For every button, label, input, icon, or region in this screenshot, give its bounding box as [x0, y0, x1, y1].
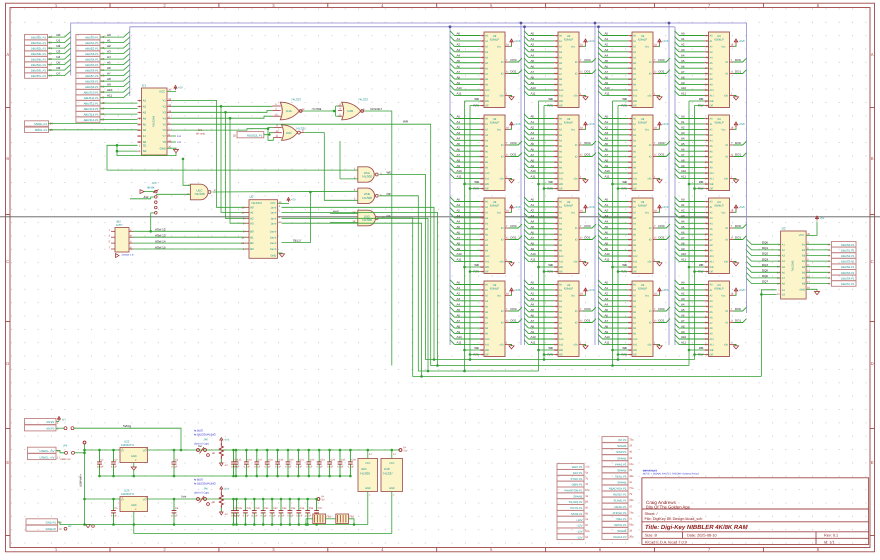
svg-text:74LS245: 74LS245 — [791, 260, 794, 271]
U2 GND — [806, 289, 817, 291]
svg-text:DBUS2.P1: DBUS2.P1 — [841, 254, 855, 258]
svg-text:Size: B: Size: B — [645, 534, 657, 538]
svg-text:DBUS7.P1: DBUS7.P1 — [841, 282, 855, 286]
svg-text:C15: C15 — [237, 458, 242, 461]
svg-text:DBUS5L.P1: DBUS5L.P1 — [31, 63, 47, 67]
svg-text:GND: GND — [365, 487, 371, 490]
svg-text:A7: A7 — [143, 134, 147, 138]
svg-text:VCC: VCC — [159, 90, 165, 94]
svg-text:+5V: +5V — [819, 217, 824, 220]
svg-text:U24: U24 — [361, 467, 367, 471]
svg-text:DBUS2L.P1: DBUS2L.P1 — [31, 47, 47, 51]
svg-text:1A: 1A — [828, 277, 831, 280]
svg-text:Da×b: Da×b — [270, 230, 277, 233]
svg-text:A4: A4 — [107, 55, 111, 59]
svg-text:OE: OE — [387, 192, 391, 196]
svg-text:U4B: U4B — [347, 109, 353, 113]
wire U1 row3 to U4A in2 — [171, 110, 273, 112]
svg-text:FB1: FB1 — [327, 516, 332, 519]
regulator U22 LM340 — [120, 448, 148, 463]
svg-text:0.1uF: 0.1uF — [287, 514, 294, 517]
svg-text:DQ1: DQ1 — [762, 246, 768, 250]
svg-text:0.1uF: 0.1uF — [270, 514, 277, 517]
svg-text:0.1uF: 0.1uF — [243, 514, 250, 517]
decoupling capacitor row 1 — [233, 450, 242, 476]
svg-text:WE: WE — [387, 171, 392, 175]
capacitor C2 — [111, 450, 118, 476]
svg-text:⇆ DECOUPLING: ⇆ DECOUPLING — [194, 432, 216, 436]
svg-text:0.1uF: 0.1uF — [265, 466, 272, 469]
svg-text:RAS: RAS — [333, 209, 339, 213]
svg-text:Sheet: /: Sheet: / — [645, 512, 659, 516]
unused gates U40 74LS27 — [381, 459, 403, 492]
svg-text:D4: D4 — [57, 55, 61, 59]
svg-text:0.1uF: 0.1uF — [317, 466, 324, 469]
svg-text:C23: C23 — [320, 458, 325, 461]
svg-text:+5Vb: +5Vb — [224, 439, 230, 442]
svg-text:1a×b: 1a×b — [270, 212, 276, 215]
svg-text:0.1uF: 0.1uF — [275, 466, 282, 469]
svg-text:A: A — [871, 52, 874, 57]
svg-text:4K/8K: 4K/8K — [147, 186, 155, 190]
svg-text:ABUS4.P1: ABUS4.P1 — [85, 58, 99, 62]
svg-text:ABUS15.P1: ABUS15.P1 — [84, 118, 99, 122]
svg-text:DBUS4.P1: DBUS4.P1 — [841, 265, 855, 269]
svg-text:0.1uF: 0.1uF — [296, 466, 303, 469]
svg-text:C34: C34 — [291, 507, 296, 510]
wire U1 row4 to U4A in3 — [171, 116, 273, 118]
wire USBPWR vertical — [84, 444, 86, 525]
U2 pin DQ5 bus entry — [747, 267, 781, 272]
svg-text:ABUS12.P1: ABUS12.P1 — [84, 102, 99, 106]
U2 pin DQ7 bus entry — [747, 278, 781, 283]
svg-text:SPARE: SPARE — [573, 494, 582, 498]
svg-text:D2: D2 — [57, 44, 61, 48]
svg-text:C37: C37 — [318, 507, 323, 510]
wire SEL17 — [282, 192, 311, 243]
labels USBCL +5V — [28, 447, 57, 453]
svg-text:74LS00: 74LS00 — [360, 472, 371, 476]
svg-text:Da×b: Da×b — [270, 248, 277, 251]
svg-text:A11: A11 — [107, 94, 112, 98]
svg-text:Y3: Y3 — [162, 110, 166, 114]
wire U5C input from top — [183, 159, 190, 185]
svg-text:C25: C25 — [341, 458, 346, 461]
svg-text:ABUS0.P1: ABUS0.P1 — [85, 36, 99, 40]
wire to U22 input — [85, 449, 121, 451]
svg-text:B2: B2 — [250, 241, 254, 245]
svg-text:ASel 14: ASel 14 — [155, 239, 166, 243]
jumper JP4 — [65, 451, 68, 454]
label DBUS1.P1 — [806, 249, 830, 251]
svg-text:A3: A3 — [107, 50, 111, 54]
svg-text:C16: C16 — [247, 458, 252, 461]
svg-text:A14: A14 — [177, 135, 182, 138]
svg-text:MWRL.P1: MWRL.P1 — [34, 122, 47, 126]
RAM chip U16 6264 col1 row3 — [450, 197, 522, 274]
svg-text:+8V.P1: +8V.P1 — [46, 420, 55, 424]
svg-text:+5V: +5V — [403, 450, 408, 453]
wire U5B out MOE — [379, 196, 538, 371]
svg-text:SPARE: SPARE — [617, 456, 626, 460]
U2 pin DQ0 bus entry — [747, 239, 781, 244]
svg-text:MRDL.P1: MRDL.P1 — [35, 128, 48, 132]
svg-text:DBUS3.P1: DBUS3.P1 — [841, 260, 855, 264]
svg-text:DBUS1L.P1: DBUS1L.P1 — [31, 41, 47, 45]
labels RWSEL — [25, 121, 49, 126]
svg-text:Y5: Y5 — [162, 122, 166, 126]
data bus column risers — [520, 23, 522, 345]
svg-text:U40: U40 — [384, 467, 390, 471]
svg-text:SPARE: SPARE — [617, 444, 626, 448]
svg-text:0.1uF: 0.1uF — [171, 466, 178, 469]
svg-text:ABUS11.P1: ABUS11.P1 — [84, 96, 99, 100]
svg-text:A1: A1 — [143, 99, 147, 103]
svg-text:D6: D6 — [57, 66, 61, 70]
svg-text:A9: A9 — [107, 83, 111, 87]
svg-text:A5: A5 — [143, 122, 147, 126]
svg-text:DBUS4L.P1: DBUS4L.P1 — [31, 58, 47, 62]
RAM chip U19 6264 col4 row3 — [675, 197, 747, 274]
wire U4A out — [303, 110, 335, 112]
svg-text:ISEL.P1: ISEL.P1 — [616, 517, 627, 521]
svg-text:C30: C30 — [255, 507, 260, 510]
RAM chip U23 6264 col4 row4 — [675, 280, 747, 357]
svg-text:A: A — [6, 52, 9, 57]
title block — [642, 478, 869, 545]
svg-text:⇆ DECOUPLING: ⇆ DECOUPLING — [194, 481, 216, 485]
wire A12 to JP3 — [130, 197, 154, 199]
wire U5C out select — [213, 190, 358, 193]
svg-text:READ.P1: READ.P1 — [615, 505, 627, 509]
svg-text:Da×b: Da×b — [270, 242, 277, 245]
svg-text:C20: C20 — [289, 458, 294, 461]
svg-text:1a×b: 1a×b — [270, 222, 276, 225]
svg-text:JP4: JP4 — [63, 445, 68, 448]
RAM chip U17 6264 col2 row3 — [524, 197, 596, 274]
svg-text:D1: D1 — [57, 39, 61, 43]
svg-text:C18: C18 — [268, 458, 273, 461]
svg-text:DBIN.P1: DBIN.P1 — [572, 483, 583, 487]
RAM chip U11 6264 col4 row1 — [675, 31, 747, 108]
IC U2 74LS245 data buffer — [781, 231, 807, 299]
svg-text:C: C — [871, 259, 874, 264]
svg-text:C35: C35 — [300, 507, 305, 510]
svg-text:-1V: -1V — [224, 513, 228, 516]
svg-text:-5V: -5V — [321, 499, 325, 502]
svg-text:SENL.P1: SENL.P1 — [615, 475, 627, 479]
svg-text:C33: C33 — [282, 507, 287, 510]
svg-text:1A: 1A — [828, 249, 831, 252]
svg-text:CDATA.P2: CDATA.P2 — [613, 535, 627, 539]
svg-text:74LS27: 74LS27 — [383, 472, 394, 476]
U2 pin DQ2 bus entry — [747, 250, 781, 255]
svg-text:USB1+5V: USB1+5V — [60, 458, 71, 461]
svg-text:A?0?: A?0? — [116, 223, 123, 227]
capacitor C5 — [111, 499, 118, 525]
RAM chip U20 6264 col1 row4 — [450, 280, 522, 357]
svg-text:C21: C21 — [299, 458, 304, 461]
svg-text:1A: 1A — [828, 283, 831, 286]
svg-text:DQ5: DQ5 — [762, 269, 768, 273]
svg-text:0.1uF: 0.1uF — [254, 466, 261, 469]
address bus column drops — [449, 27, 451, 345]
svg-text:C: C — [6, 259, 9, 264]
capacitor C6 — [171, 499, 178, 525]
wire U5D in2 — [330, 222, 358, 224]
connector P1 address labels ABUS0-15 — [76, 34, 100, 39]
RAM chip U22 6264 col3 row4 — [598, 280, 670, 357]
svg-text:74LS00: 74LS00 — [362, 175, 373, 179]
svg-text:G2: G2 — [782, 293, 786, 296]
svg-text:-1V: -1V — [224, 464, 228, 467]
svg-text:W1: W1 — [62, 419, 66, 422]
svg-text:RDY.P1: RDY.P1 — [573, 471, 583, 475]
svg-text:5Vr: 5Vr — [198, 445, 202, 448]
svg-text:DBUS5.P1: DBUS5.P1 — [841, 271, 855, 275]
power input labels +8V — [25, 419, 57, 425]
svg-text:GND: GND — [131, 455, 137, 458]
RAM chip U15 6264 col4 row2 — [675, 114, 747, 191]
labels GND bottom — [26, 519, 58, 525]
svg-text:1A: 1A — [828, 243, 831, 246]
svg-text:4K-only: 4K-only — [196, 132, 205, 135]
svg-text:74LS27: 74LS27 — [291, 98, 302, 102]
svg-text:0.1uF: 0.1uF — [337, 466, 344, 469]
svg-text:SWOL.P1: SWOL.P1 — [614, 523, 627, 527]
solder jumper JP5 — [197, 449, 200, 452]
svg-text:ASel 13: ASel 13 — [155, 234, 166, 238]
svg-text:+8V.P2: +8V.P2 — [46, 427, 55, 431]
svg-text:WAIT.P1: WAIT.P1 — [572, 465, 583, 469]
svg-text:0.1uF: 0.1uF — [305, 514, 312, 517]
svg-text:A2: A2 — [250, 216, 254, 220]
svg-text:DBUS7L.P1: DBUS7L.P1 — [31, 74, 47, 78]
svg-text:Y8: Y8 — [162, 140, 166, 144]
gate U4A 74LS27 — [280, 102, 299, 120]
svg-text:G1: G1 — [143, 143, 147, 147]
ferrite bead FB1 — [313, 514, 326, 524]
svg-text:<0.7099: <0.7099 — [312, 108, 322, 111]
svg-text:5Vreg: 5Vreg — [123, 424, 131, 428]
label DBUS3.P1 — [806, 260, 830, 262]
svg-text:A4: A4 — [143, 116, 147, 120]
svg-text:B: B — [6, 156, 9, 161]
svg-text:PHANTOM.P1: PHANTOM.P1 — [564, 489, 583, 493]
svg-text:SPARE: SPARE — [617, 529, 626, 533]
svg-text:+5Vb: +5Vb — [224, 488, 230, 491]
svg-text:0.1uF: 0.1uF — [244, 466, 251, 469]
gate U5A 74LS00 — [358, 167, 374, 182]
column 2 WE/OE chain verticals — [538, 101, 540, 371]
svg-text:PHA2.P1: PHA2.P1 — [615, 462, 627, 466]
svg-text:A5: A5 — [107, 61, 111, 65]
svg-text:Y1: Y1 — [162, 99, 166, 103]
svg-text:Jumper x 8: Jumper x 8 — [122, 254, 134, 257]
svg-text:JP5: JP5 — [204, 438, 209, 441]
svg-text:LM340T-5: LM340T-5 — [121, 492, 134, 496]
U22 ground — [133, 463, 135, 468]
svg-text:C19: C19 — [279, 458, 284, 461]
svg-text:1A: 1A — [828, 260, 831, 263]
svg-text:3K: 3K — [212, 501, 215, 504]
RAM chip U14 6264 col3 row2 — [598, 114, 670, 191]
svg-text:A6: A6 — [143, 128, 147, 132]
svg-text:USBCL.+5V: USBCL.+5V — [39, 449, 54, 453]
svg-text:SLAVE.P1: SLAVE.P1 — [613, 499, 626, 503]
svg-text:SPARE: SPARE — [617, 468, 626, 472]
svg-text:Y7: Y7 — [162, 134, 166, 138]
svg-text:VCC: VCC — [389, 462, 394, 465]
svg-text:DQ3: DQ3 — [762, 257, 768, 261]
svg-text:A7: A7 — [107, 72, 111, 76]
svg-text:GND: GND — [271, 254, 277, 257]
svg-text:USBPWR+: USBPWR+ — [80, 474, 83, 487]
wire MWR long run — [171, 124, 689, 365]
svg-text:0.1uF: 0.1uF — [296, 514, 303, 517]
svg-text:12a: 12a — [585, 466, 590, 469]
svg-text:C17: C17 — [258, 458, 263, 461]
bottom rail row2b — [134, 533, 392, 535]
svg-text:A0: A0 — [250, 205, 254, 209]
solder jumper JP6 — [197, 498, 200, 501]
bottom rail row2 — [85, 524, 368, 526]
svg-text:Da×b: Da×b — [270, 236, 277, 239]
svg-text:0.1uF: 0.1uF — [285, 466, 292, 469]
svg-text:A2: A2 — [143, 104, 147, 108]
wire U4B out to RAMCS — [365, 111, 392, 366]
gate U5D 74LS00 — [358, 210, 376, 226]
decoupling capacitor row 2 — [234, 499, 243, 525]
svg-text:ABUS7.P1: ABUS7.P1 — [85, 74, 99, 78]
svg-text:U4A: U4A — [286, 109, 292, 113]
svg-text:A8: A8 — [107, 77, 111, 81]
svg-text:+5V: +5V — [291, 199, 296, 202]
connector P1 data labels DBUS0-7 — [25, 34, 48, 39]
U23 ground — [133, 512, 135, 525]
svg-text:C26: C26 — [351, 458, 356, 461]
svg-text:GND: GND — [160, 146, 166, 150]
svg-text:+5V: +5V — [178, 87, 183, 90]
svg-text:-12V: -12V — [577, 524, 583, 528]
svg-text:35a: 35a — [629, 536, 634, 539]
svg-text:D: D — [6, 361, 9, 366]
svg-text:D0: D0 — [57, 33, 61, 37]
svg-text:-12V: -12V — [577, 535, 583, 539]
svg-text:ABUS8.P1: ABUS8.P1 — [85, 80, 99, 84]
svg-text:DBUS3L.P1: DBUS3L.P1 — [31, 52, 47, 56]
svg-text:Y2: Y2 — [162, 104, 166, 108]
svg-text:SEL17: SEL17 — [293, 239, 302, 243]
svg-text:ABUS3.P1: ABUS3.P1 — [85, 52, 99, 56]
svg-text:B: B — [871, 156, 874, 161]
svg-text:ABUS9.P1: ABUS9.P1 — [85, 85, 99, 89]
wire row2 input — [85, 498, 121, 500]
svg-text:25: 25 — [233, 134, 237, 138]
svg-text:Rev: 0.1: Rev: 0.1 — [824, 534, 838, 538]
svg-text:U7: U7 — [250, 195, 254, 199]
svg-text:74LS00: 74LS00 — [194, 192, 205, 196]
svg-text:A1: A1 — [107, 39, 111, 43]
wire U2 enables to bottom run — [761, 290, 776, 295]
svg-text:DCS3217: DCS3217 — [371, 108, 383, 111]
svg-text:DBUS1.P1: DBUS1.P1 — [841, 248, 855, 252]
svg-text:Y6: Y6 — [162, 128, 166, 132]
svg-text:+12V: +12V — [576, 518, 583, 522]
svg-text:D5: D5 — [57, 61, 61, 65]
RAM chip U21 6264 col2 row4 — [524, 280, 596, 357]
svg-text:PHOLD.P1: PHOLD.P1 — [613, 511, 627, 515]
svg-text:DBUS6L.P1: DBUS6L.P1 — [31, 69, 47, 73]
gate U5B 74LS00 — [358, 188, 375, 204]
svg-text:0.1uF: 0.1uF — [111, 514, 118, 517]
IC U1 74LS244 buffer — [142, 88, 168, 155]
svg-text:KiCad E.D.A. kicad 7.0.9: KiCad E.D.A. kicad 7.0.9 — [645, 540, 687, 544]
svg-text:G2: G2 — [143, 149, 147, 153]
svg-text:GND: GND — [389, 487, 395, 490]
spare label column B — [602, 437, 628, 443]
wire U23 out rail2 — [148, 498, 318, 500]
svg-text:USBCL.+5V: USBCL.+5V — [39, 455, 54, 459]
svg-text:U4C: U4C — [286, 131, 293, 135]
svg-text:0.1uF: 0.1uF — [261, 514, 268, 517]
svg-text:A1: A1 — [250, 211, 254, 215]
svg-text:SIXTN.P1: SIXTN.P1 — [570, 506, 583, 510]
wire USB power junction — [56, 450, 65, 452]
RAM chip U10 6264 col3 row1 — [598, 31, 670, 108]
wire 5Vreg — [56, 421, 59, 423]
svg-text:DBUS6.P1: DBUS6.P1 — [841, 276, 855, 280]
svg-text:A6: A6 — [107, 66, 111, 70]
svg-text:DQ2: DQ2 — [762, 252, 768, 256]
svg-text:0.1uF: 0.1uF — [234, 514, 241, 517]
label DBUS7.P1 — [806, 283, 830, 285]
svg-text:3K: 3K — [212, 452, 215, 455]
U1 short stubs rows 7-8 — [171, 135, 176, 137]
column 3 WE/OE chain verticals — [612, 101, 614, 366]
wire JP3 bottom to ASel12 — [150, 213, 152, 231]
svg-text:DQ4: DQ4 — [762, 263, 768, 267]
capacitor C7 100uF — [231, 499, 238, 525]
svg-text:WR: WR — [403, 119, 409, 123]
wire U5A out MWE — [379, 175, 694, 360]
svg-text:1A: 1A — [828, 255, 831, 258]
wire U5D out CS — [379, 218, 761, 376]
svg-text:B1: B1 — [250, 235, 254, 239]
svg-text:C31: C31 — [264, 507, 269, 510]
svg-text:74LS244: 74LS244 — [151, 116, 155, 128]
svg-text:5Vrk: 5Vrk — [181, 495, 187, 498]
svg-text:C36: C36 — [309, 507, 314, 510]
svg-text:(Set 0.0 Cap): (Set 0.0 Cap) — [194, 491, 209, 494]
svg-text:74LS27: 74LS27 — [296, 126, 307, 130]
svg-text:0.1uF: 0.1uF — [348, 466, 355, 469]
svg-text:67a: 67a — [585, 489, 590, 492]
svg-text:RESET.P1: RESET.P1 — [613, 493, 627, 497]
svg-text:ABUS14.P1: ABUS14.P1 — [84, 113, 99, 117]
svg-text:ABUS10.P1: ABUS10.P1 — [84, 91, 99, 95]
svg-text:D7: D7 — [57, 72, 61, 76]
gate U5C 74LS00 — [190, 184, 208, 200]
wire JP3 pin1 flag — [144, 191, 154, 193]
svg-text:GND.P1: GND.P1 — [46, 521, 57, 525]
svg-text:DBUS0.P1: DBUS0.P1 — [841, 243, 855, 247]
gate U4B 74LS27 — [342, 102, 361, 120]
svg-text:A12: A12 — [144, 195, 149, 199]
svg-text:C24: C24 — [331, 458, 336, 461]
ferrite bead FB2 — [336, 514, 349, 524]
svg-text:74a: 74a — [629, 511, 634, 514]
